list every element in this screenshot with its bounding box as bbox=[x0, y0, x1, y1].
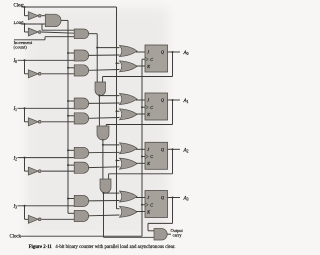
wire I1 drop to inverter U4 bbox=[25, 108, 29, 122]
flip-flop FF2 bbox=[145, 142, 168, 169]
wire clock tap FF0 bbox=[142, 58, 145, 60]
wire A0K output to OR O0K bbox=[89, 69, 120, 72]
OR gate O1K bbox=[120, 109, 138, 120]
wire clock tap FF3 bbox=[142, 204, 145, 206]
svg-text:K: K bbox=[146, 161, 150, 166]
wire K input FF0 bbox=[136, 65, 145, 67]
node load-enable tap K1 bbox=[67, 115, 69, 117]
wire Q1 feedback bbox=[106, 100, 172, 126]
wire Load to AND G1 bbox=[21, 23, 45, 25]
node I3 junction bbox=[24, 205, 26, 207]
wire load-enable to AND A1K bbox=[68, 115, 74, 117]
wire Clock bbox=[21, 59, 143, 236]
wire J input FF3 bbox=[136, 197, 145, 199]
wire load-enable to AND A2K bbox=[68, 164, 74, 166]
wire U4 output to AND A1K bbox=[42, 121, 75, 123]
wire A3J output to OR O3J bbox=[89, 200, 120, 202]
input label Clear bbox=[14, 3, 25, 8]
wire load-enable to AND A3J bbox=[68, 198, 74, 200]
OR gate O3K bbox=[120, 206, 138, 217]
wire load-enable to AND A1J bbox=[68, 100, 74, 102]
node load-enable tap J1 bbox=[67, 100, 69, 102]
wire Clear drop to inverter U1 bbox=[25, 7, 29, 16]
wire load-enable to AND A3K bbox=[68, 212, 74, 214]
input label I1 bbox=[13, 107, 18, 112]
node load-enable tap J3 bbox=[67, 198, 69, 200]
wire K input FF1 bbox=[136, 113, 145, 115]
wire K input FF2 bbox=[136, 162, 145, 164]
node clock tap 1 bbox=[141, 106, 143, 108]
wire clear to OR O1K bbox=[117, 110, 120, 112]
svg-text:C: C bbox=[150, 105, 153, 110]
node count tap stage 2 bbox=[102, 144, 104, 146]
svg-text:I3: I3 bbox=[13, 205, 18, 210]
svg-text:C: C bbox=[150, 57, 153, 62]
wire Q2 output bbox=[168, 148, 181, 150]
wire U5 output to AND A2K bbox=[42, 170, 75, 172]
wire chain C3 output bbox=[103, 192, 105, 237]
node count tap stage 1 bbox=[98, 95, 100, 97]
wire count to OR O2J bbox=[103, 144, 120, 146]
wire Q3 feedback to carry bbox=[148, 198, 173, 231]
wire Q1 output bbox=[168, 99, 181, 101]
wire I3 input row bbox=[18, 205, 75, 207]
AND gate G2 (count enable, 3-input) bbox=[74, 29, 88, 39]
node load-enable tap J2 bbox=[67, 149, 69, 151]
svg-text:Clear: Clear bbox=[14, 3, 25, 8]
wire G1 output to load-enable bus bbox=[61, 19, 68, 21]
wire count to OR J0 bbox=[97, 47, 119, 49]
node clear tap stage 2 bbox=[116, 160, 118, 162]
wire load-enable to AND A0K bbox=[68, 67, 74, 69]
svg-text:I0: I0 bbox=[13, 59, 18, 64]
wire G2 output to count chain bbox=[89, 34, 98, 82]
wire clear to OR O2K bbox=[117, 160, 120, 162]
flip-flop FF3 bbox=[145, 191, 168, 218]
svg-text:C: C bbox=[150, 202, 153, 207]
wire Increment input bbox=[14, 37, 74, 40]
node clear tap stage 1 bbox=[116, 110, 118, 112]
node clear tap stage 0 bbox=[116, 62, 118, 64]
wire Q0 output bbox=[168, 51, 181, 53]
node count tap stage 3 bbox=[103, 192, 105, 194]
inverter U4 (not I1) bbox=[28, 118, 41, 126]
wire A1K output to OR O1K bbox=[89, 117, 120, 120]
OR gate O0J bbox=[120, 46, 138, 57]
wire A0J output to OR O0J bbox=[89, 54, 120, 56]
inverter U1 (Clear) bbox=[28, 12, 41, 20]
wire K input FF3 bbox=[136, 211, 145, 213]
svg-text:K: K bbox=[146, 112, 150, 117]
wire load-enable to AND A2J bbox=[68, 149, 74, 151]
flip-flop FF0 bbox=[145, 45, 168, 72]
wire chain C2 output bbox=[102, 139, 104, 179]
AND gate A3J (Load AND I3) bbox=[74, 196, 89, 207]
wire I2 drop to inverter U5 bbox=[25, 158, 29, 172]
node I1 junction bbox=[24, 107, 26, 109]
wire count to OR O3J bbox=[104, 192, 120, 194]
wire J input FF0 bbox=[136, 51, 145, 53]
wire U3 output to AND A0K bbox=[42, 73, 75, 75]
node load-enable tap J0 bbox=[67, 52, 69, 54]
svg-text:K: K bbox=[146, 64, 150, 69]
AND gate A2K (Load AND not I2) bbox=[74, 162, 89, 173]
AND gate A3K (Load AND not I3) bbox=[74, 210, 89, 221]
node Q0 feedback junction bbox=[172, 51, 174, 53]
node clock tap 2 bbox=[141, 156, 143, 158]
OR gate O1J bbox=[120, 94, 138, 105]
AND gate A1J (Load AND I1) bbox=[74, 98, 89, 109]
node Load junction bbox=[24, 23, 26, 25]
wire clock tap FF1 bbox=[142, 106, 145, 108]
AND gate A2J (Load AND I2) bbox=[74, 147, 89, 158]
wire A1J output to OR O1J bbox=[89, 102, 120, 104]
AND gate A0K (Load AND not I0) bbox=[74, 65, 89, 76]
wire J input FF2 bbox=[136, 148, 145, 150]
wire Q2 feedback bbox=[109, 149, 173, 179]
wire output carry stub bbox=[167, 233, 171, 235]
wire Load branch to AND G2 top input bbox=[42, 24, 74, 30]
wire U2 output to AND G2 middle input bbox=[42, 32, 75, 33]
AND gate A0J (Load AND I0) bbox=[74, 50, 89, 61]
inverter U6 (not I3) bbox=[28, 215, 41, 223]
AND gate G3 (output carry) bbox=[154, 229, 167, 241]
svg-text:(count): (count) bbox=[14, 45, 28, 50]
output label Output carry bbox=[171, 228, 184, 238]
wire Q3 output bbox=[168, 197, 181, 199]
node Q2 feedback junction bbox=[172, 148, 174, 150]
wire A2J output to OR O2J bbox=[89, 151, 120, 153]
wire U1 output to AND G1 bbox=[42, 15, 46, 17]
OR gate O3J bbox=[120, 191, 138, 202]
node load-enable tap K0 bbox=[67, 67, 69, 69]
chain AND gate C2 bbox=[97, 126, 109, 140]
input label Clock bbox=[10, 234, 22, 239]
svg-text:C: C bbox=[150, 154, 153, 159]
node count tap stage 0 bbox=[96, 47, 98, 49]
input label Load bbox=[14, 21, 24, 26]
wire load-enable to AND A0J bbox=[68, 52, 74, 54]
wire I0 drop to inverter U3 bbox=[25, 60, 29, 74]
AND gate G1 (Load AND not-Clear) bbox=[45, 14, 61, 27]
output label A1 bbox=[183, 98, 189, 104]
svg-text:Q: Q bbox=[161, 98, 164, 103]
svg-text:Q: Q bbox=[161, 195, 164, 200]
wire Load drop to inverter U2 bbox=[25, 24, 29, 32]
inverter U5 (not I2) bbox=[28, 167, 41, 175]
wire I1 input row bbox=[18, 107, 75, 109]
output label A0 bbox=[183, 50, 189, 56]
wire U6 output to AND A3K bbox=[42, 218, 75, 220]
wire Q0 feedback bbox=[103, 52, 173, 82]
svg-text:I2: I2 bbox=[13, 156, 18, 161]
wire clear to OR O3K bbox=[117, 208, 120, 210]
svg-text:I1: I1 bbox=[13, 107, 18, 112]
node I2 junction bbox=[24, 157, 26, 159]
caption Figure 2-11 bbox=[29, 245, 176, 250]
wire clock tap FF2 bbox=[142, 156, 145, 158]
node Q1 feedback junction bbox=[172, 99, 174, 101]
svg-text:carry: carry bbox=[173, 233, 183, 238]
wire chain C4 to carry gate bbox=[104, 236, 155, 238]
svg-text:Q: Q bbox=[161, 147, 164, 152]
wire chain C1 output bbox=[98, 95, 100, 127]
input label I0 bbox=[13, 59, 18, 64]
wire I3 drop to inverter U6 bbox=[25, 206, 29, 220]
AND gate A1K (Load AND not I1) bbox=[74, 113, 89, 124]
node clock tap 3 bbox=[141, 204, 143, 206]
OR gate O0K bbox=[120, 61, 138, 72]
output label A3 bbox=[183, 196, 189, 202]
wire clear to OR O0K bbox=[117, 62, 120, 64]
wire A3K output to OR O3K bbox=[89, 214, 120, 217]
OR gate O2J bbox=[120, 143, 138, 154]
node Clear junction bbox=[24, 6, 26, 8]
svg-text:K: K bbox=[146, 209, 150, 214]
chain AND gate C3 bbox=[100, 179, 111, 193]
svg-text:Q: Q bbox=[161, 50, 164, 55]
output label A2 bbox=[183, 147, 189, 153]
wire A2K output to OR O2K bbox=[89, 166, 120, 169]
node Q3 feedback junction bbox=[172, 197, 174, 199]
wire I0 input row bbox=[18, 59, 75, 61]
wire J input FF1 bbox=[136, 99, 145, 101]
inverter U2 (Load) bbox=[28, 28, 41, 36]
wire Clear to inverter and clear bus bbox=[22, 6, 117, 8]
svg-text:Figure 2-11 4-bit binary coun: Figure 2-11 4-bit binary counter with pa… bbox=[29, 245, 176, 250]
wire I2 input row bbox=[18, 157, 75, 159]
flip-flop FF1 bbox=[145, 93, 168, 120]
chain AND gate C1 bbox=[95, 82, 106, 96]
input label I2 bbox=[13, 156, 18, 161]
wire count to OR O1J bbox=[99, 95, 119, 97]
wire load-enable vertical bus bbox=[67, 20, 69, 213]
node load-enable tap K2 bbox=[67, 164, 69, 166]
input label I3 bbox=[13, 205, 18, 210]
svg-text:Clock: Clock bbox=[10, 234, 22, 239]
input label Increment (count) bbox=[14, 40, 33, 49]
OR gate O2K bbox=[120, 158, 138, 169]
inverter U3 (not I0) bbox=[28, 70, 41, 78]
node I0 junction bbox=[24, 59, 26, 61]
wire clear vertical bus bbox=[116, 7, 118, 209]
